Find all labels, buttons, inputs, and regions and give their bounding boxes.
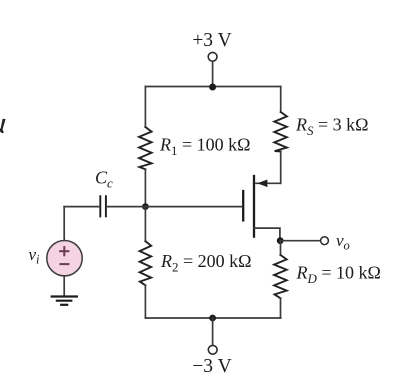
junction dot at gate node <box>142 203 149 210</box>
capacitor Cc right plate <box>105 196 107 216</box>
wire: R2 from gate node down <box>144 207 146 242</box>
transistor Q1 drain lead <box>254 228 280 238</box>
junction dot at bottom rail <box>209 315 216 322</box>
label +3 V <box>192 30 231 51</box>
ground <box>52 297 77 305</box>
transistor Q1 gate bar <box>242 191 244 220</box>
svg-text:−3 V: −3 V <box>192 356 231 374</box>
wire: top rail to R1 <box>144 87 146 128</box>
wire: vi source to ground <box>63 276 65 296</box>
wire: gate lead from gate node to gate bar <box>145 206 242 208</box>
wire: top rail <box>145 86 280 88</box>
wire: bottom rail <box>145 317 280 319</box>
wire: RD to bottom rail <box>280 298 282 318</box>
resistor RD <box>274 255 287 298</box>
wire: input corner to capacitor <box>64 206 99 208</box>
label -3 V <box>192 356 231 374</box>
transistor Q1 source lead with arrow <box>256 180 281 188</box>
wire: input corner down to vi source <box>63 207 65 241</box>
label R2 = 200 kOhm <box>160 251 252 275</box>
wire: +3V terminal to top rail <box>212 61 214 86</box>
wire: capacitor to gate node <box>107 206 146 208</box>
wire: drain node to RD <box>280 241 282 255</box>
label vi <box>29 245 41 267</box>
resistor RS <box>274 112 287 152</box>
capacitor Cc left plate <box>99 196 101 216</box>
plus sign inside vi <box>60 247 68 255</box>
terminal vo (open circle) <box>321 237 329 245</box>
source vi (circle) <box>47 241 82 276</box>
wire: RS to transistor source lead <box>280 152 282 184</box>
transistor Q1 channel bar <box>253 176 255 237</box>
label R1 = 100 kOhm <box>159 135 251 159</box>
junction dot at top rail <box>209 84 216 91</box>
svg-text:RS = 3 kΩ: RS = 3 kΩ <box>295 115 369 139</box>
wire: top rail to RS <box>280 87 282 113</box>
wire: R1 to gate node <box>144 169 146 207</box>
stray italic glyph fragment at left page edge <box>0 119 6 133</box>
terminal +3V (open circle) <box>208 52 217 61</box>
label RD = 10 kOhm <box>296 263 381 287</box>
terminal -3V (open circle) <box>208 345 217 354</box>
wire: drain node to vo terminal <box>280 240 320 242</box>
junction dot at drain node <box>277 237 284 244</box>
label vo <box>336 231 350 253</box>
svg-text:+3 V: +3 V <box>192 30 231 51</box>
label RS = 3 kOhm <box>295 115 369 139</box>
label Cc <box>95 168 113 191</box>
resistor R1 <box>139 127 152 169</box>
wire: R2 to bottom rail <box>144 285 146 318</box>
resistor R2 <box>140 241 152 285</box>
wire: bottom rail to -3V terminal <box>212 318 214 345</box>
minus sign inside vi <box>60 263 68 265</box>
